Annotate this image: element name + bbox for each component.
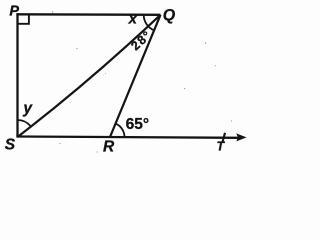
svg-text:y: y xyxy=(22,100,33,117)
angle arc y at S xyxy=(18,120,31,126)
arrowhead at T ray end xyxy=(236,133,246,141)
scan speckles xyxy=(52,11,232,152)
angle arc 65 at R xyxy=(116,124,125,137)
svg-text:T: T xyxy=(217,140,226,154)
svg-text:R: R xyxy=(103,139,115,155)
svg-text:65°: 65° xyxy=(126,116,149,133)
svg-text:Q: Q xyxy=(163,7,176,24)
svg-text:P: P xyxy=(9,4,19,20)
right angle mark at P xyxy=(18,15,29,24)
svg-text:x: x xyxy=(128,10,138,27)
wire R to Q xyxy=(110,15,161,137)
wire top line P to Q xyxy=(16,13,160,16)
tick mark point T xyxy=(223,133,225,142)
svg-text:S: S xyxy=(5,137,16,154)
svg-text:28°: 28° xyxy=(128,28,154,53)
wire diagonal S to Q xyxy=(18,15,161,137)
wire bottom ray S through R to T arrow xyxy=(16,137,238,138)
wire left line P to S xyxy=(16,13,18,137)
angle arc x and 28 at Q xyxy=(144,15,154,31)
